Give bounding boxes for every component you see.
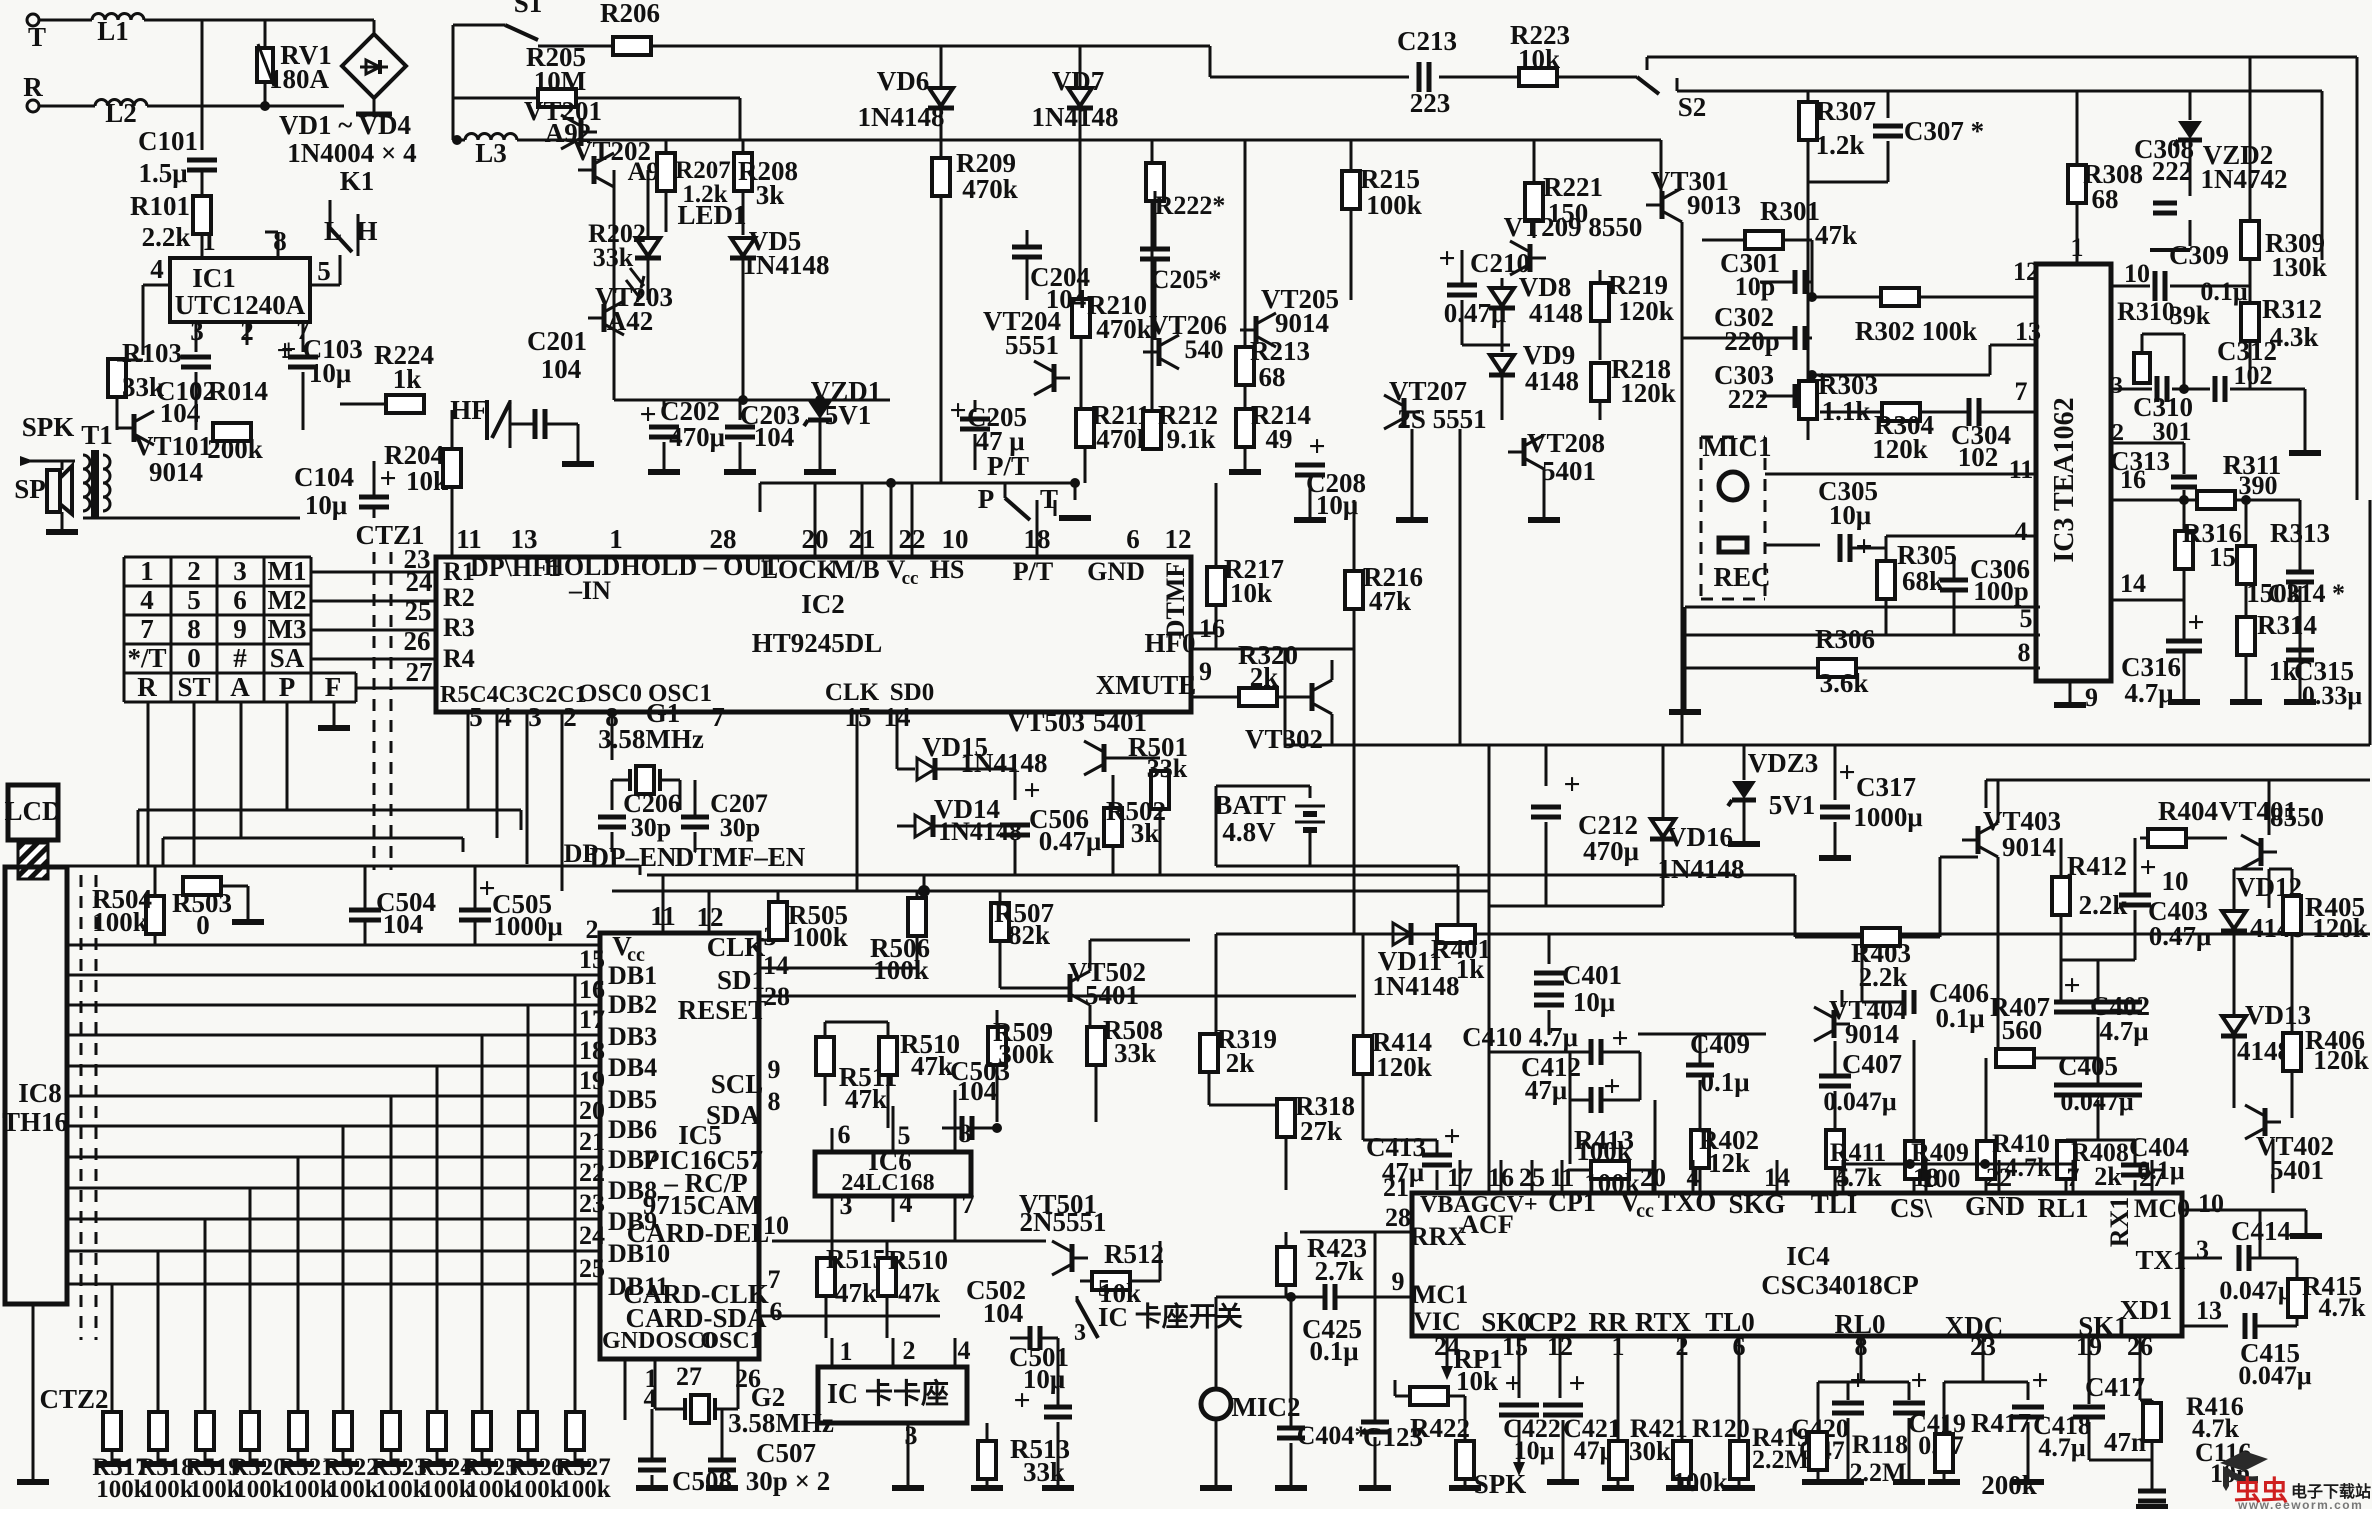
svg-text:RESET: RESET	[678, 995, 767, 1025]
svg-text:R101: R101	[130, 191, 190, 221]
svg-text:1000μ: 1000μ	[1853, 802, 1922, 832]
svg-text:0.33μ: 0.33μ	[2302, 681, 2363, 710]
svg-text:C508: C508	[672, 1466, 732, 1496]
svg-text:24LC168: 24LC168	[841, 1170, 934, 1196]
svg-text:R206: R206	[600, 0, 660, 28]
svg-text:MC1: MC1	[1412, 1280, 1468, 1309]
svg-text:4.8V: 4.8V	[1222, 817, 1276, 847]
svg-text:0.047μ: 0.047μ	[2219, 1276, 2293, 1305]
svg-text:3.6k: 3.6k	[1820, 668, 1869, 698]
svg-text:5V1: 5V1	[1769, 790, 1816, 820]
svg-text:+: +	[2063, 969, 2080, 1002]
svg-text:47μ: 47μ	[1525, 1075, 1567, 1105]
svg-text:DTMF: DTMF	[1161, 562, 1190, 639]
svg-text:+: +	[2031, 1364, 2048, 1397]
svg-text:1.5μ: 1.5μ	[138, 158, 187, 188]
svg-text:120k: 120k	[1620, 378, 1676, 408]
svg-text:R: R	[137, 672, 157, 702]
svg-text:0.47μ: 0.47μ	[2149, 921, 2212, 951]
svg-text:OSC1: OSC1	[700, 1328, 761, 1354]
svg-text:9014: 9014	[149, 457, 203, 487]
svg-text:47k: 47k	[845, 1084, 887, 1114]
svg-text:IC 卡座开关: IC 卡座开关	[1098, 1301, 1243, 1332]
svg-text:2: 2	[563, 702, 577, 732]
svg-text:1: 1	[840, 1337, 853, 1366]
svg-text:8550: 8550	[2270, 802, 2324, 832]
svg-text:VD7: VD7	[1052, 66, 1105, 96]
svg-text:C417: C417	[2085, 1372, 2145, 1402]
svg-text:+: +	[1910, 1364, 1927, 1397]
svg-text:11: 11	[456, 524, 482, 554]
svg-text:15: 15	[1502, 1332, 1528, 1361]
svg-text:R310: R310	[2117, 297, 2175, 326]
svg-text:1N4148: 1N4148	[743, 250, 830, 280]
svg-text:S1: S1	[514, 0, 543, 18]
svg-text:2.7k: 2.7k	[1315, 1256, 1364, 1286]
svg-text:VD13: VD13	[2245, 1000, 2311, 1030]
svg-text:0.1μ: 0.1μ	[1309, 1336, 1358, 1366]
svg-text:+: +	[1443, 1120, 1460, 1153]
svg-text:5: 5	[317, 256, 331, 286]
svg-text:21: 21	[1383, 1173, 1409, 1202]
svg-text:VD1 ~ VD4: VD1 ~ VD4	[279, 110, 411, 140]
svg-text:VD16: VD16	[1667, 822, 1733, 852]
svg-text:*/T: */T	[127, 643, 166, 673]
svg-text:470k: 470k	[962, 174, 1018, 204]
svg-text:IC8: IC8	[18, 1078, 62, 1108]
svg-text:M3: M3	[268, 614, 307, 644]
svg-text:VT503: VT503	[1007, 707, 1085, 737]
svg-text:470k: 470k	[1096, 314, 1152, 344]
svg-text:104: 104	[541, 354, 582, 384]
svg-text:P/T: P/T	[1013, 557, 1053, 586]
svg-text:4.7k: 4.7k	[2319, 1293, 2367, 1322]
svg-text:TLI: TLI	[1811, 1189, 1858, 1219]
svg-text:R4: R4	[443, 644, 475, 673]
svg-text:2.2k: 2.2k	[142, 222, 191, 252]
svg-text:DB2: DB2	[608, 990, 657, 1019]
svg-text:7: 7	[962, 1190, 975, 1219]
svg-text:SD1: SD1	[717, 965, 765, 995]
svg-text:R312: R312	[2262, 294, 2322, 324]
svg-text:0.1μ: 0.1μ	[1700, 1067, 1749, 1097]
svg-text:1: 1	[202, 226, 216, 256]
svg-text:27: 27	[406, 657, 433, 687]
svg-text:2k: 2k	[1226, 1048, 1255, 1078]
svg-text:R306: R306	[1815, 624, 1875, 654]
svg-text:H: H	[356, 216, 377, 246]
svg-text:HF0: HF0	[1145, 628, 1196, 658]
svg-text:2: 2	[903, 1336, 916, 1365]
svg-text:C104: C104	[294, 462, 354, 492]
svg-text:9: 9	[768, 1055, 781, 1084]
svg-text:100k: 100k	[1576, 1136, 1632, 1166]
svg-text:VT209 8550: VT209 8550	[1504, 212, 1643, 242]
svg-text:9: 9	[1392, 1267, 1405, 1296]
svg-text:DB4: DB4	[608, 1053, 657, 1082]
svg-text:SA: SA	[270, 643, 305, 673]
svg-text:C101: C101	[138, 126, 198, 156]
svg-text:10μ: 10μ	[1829, 500, 1871, 530]
svg-text:1N4148: 1N4148	[938, 817, 1022, 846]
svg-text:9014: 9014	[1845, 1019, 1899, 1049]
svg-text:VT208: VT208	[1527, 428, 1605, 458]
svg-text:27: 27	[676, 1362, 702, 1391]
svg-text:5401: 5401	[1542, 456, 1596, 486]
svg-text:0.1μ: 0.1μ	[1935, 1003, 1984, 1033]
svg-text:+: +	[1849, 1364, 1866, 1397]
svg-text:ACF: ACF	[1460, 1210, 1513, 1239]
svg-text:+: +	[1603, 1070, 1620, 1103]
svg-text:30p: 30p	[631, 813, 671, 842]
svg-text:10μ: 10μ	[1514, 1436, 1555, 1465]
svg-text:DB6: DB6	[608, 1115, 657, 1144]
svg-text:102: 102	[2234, 361, 2273, 390]
svg-text:47k: 47k	[898, 1278, 940, 1308]
svg-text:11: 11	[2009, 455, 2034, 484]
svg-text:10μ: 10μ	[309, 358, 351, 388]
svg-text:C405: C405	[2058, 1051, 2118, 1081]
svg-text:104: 104	[957, 1076, 998, 1106]
svg-text:180A: 180A	[269, 64, 330, 94]
svg-text:R422: R422	[1410, 1413, 1470, 1443]
svg-text:10k: 10k	[1518, 44, 1560, 74]
svg-text:12: 12	[1165, 524, 1192, 554]
svg-text:3.58MHz: 3.58MHz	[728, 1408, 834, 1438]
svg-text:14: 14	[763, 951, 789, 980]
svg-text:14: 14	[2120, 569, 2146, 598]
svg-text:R412: R412	[2067, 851, 2127, 881]
svg-text:4.7μ: 4.7μ	[2038, 1433, 2086, 1462]
svg-text:CSC34018CP: CSC34018CP	[1761, 1270, 1919, 1300]
svg-text:33k: 33k	[1114, 1038, 1156, 1068]
svg-text:R103: R103	[122, 338, 182, 368]
svg-text:0.047μ: 0.047μ	[2238, 1361, 2312, 1390]
svg-text:10μ: 10μ	[1573, 987, 1615, 1017]
svg-text:VD6: VD6	[877, 66, 930, 96]
svg-text:T: T	[28, 22, 46, 52]
svg-text:16: 16	[1199, 614, 1225, 643]
svg-text:470μ: 470μ	[1583, 836, 1639, 866]
svg-text:68: 68	[1259, 362, 1286, 392]
svg-text:33k: 33k	[1147, 754, 1188, 783]
svg-text:www.eeworm.com: www.eeworm.com	[2237, 1498, 2363, 1509]
svg-text:10μ: 10μ	[1316, 490, 1358, 520]
svg-text:–IN: –IN	[568, 576, 611, 605]
svg-text:+: +	[1023, 774, 1040, 807]
svg-text:cc: cc	[902, 568, 919, 589]
svg-text:RRX: RRX	[1410, 1222, 1467, 1251]
svg-text:5: 5	[898, 1121, 911, 1150]
svg-text:3: 3	[233, 556, 247, 586]
svg-text:R510: R510	[888, 1245, 948, 1275]
svg-text:C213: C213	[1397, 26, 1457, 56]
svg-text:4: 4	[900, 1189, 913, 1218]
svg-text:560: 560	[2002, 1015, 2043, 1045]
svg-text:R302 100k: R302 100k	[1855, 316, 1977, 346]
svg-text:C313: C313	[2110, 446, 2170, 476]
svg-text:120k: 120k	[1872, 434, 1928, 464]
svg-text:RX1: RX1	[2105, 1197, 2134, 1248]
svg-text:47k: 47k	[911, 1051, 953, 1081]
svg-text:120k: 120k	[2313, 1045, 2369, 1075]
svg-text:CS\: CS\	[1890, 1193, 1933, 1223]
svg-text:6: 6	[233, 585, 247, 615]
svg-text:100p: 100p	[1973, 576, 2029, 606]
svg-text:#: #	[233, 643, 247, 673]
svg-text:SPK: SPK	[1474, 1469, 1527, 1499]
svg-text:104: 104	[160, 398, 201, 428]
svg-text:IC1: IC1	[192, 263, 236, 293]
svg-text:10: 10	[2162, 866, 2189, 896]
svg-text:A: A	[230, 672, 250, 702]
svg-text:47k: 47k	[1369, 586, 1411, 616]
svg-text:VDZ3: VDZ3	[1748, 748, 1819, 778]
svg-text:27k: 27k	[1300, 1116, 1342, 1146]
svg-text:M2: M2	[268, 585, 307, 615]
svg-text:100k: 100k	[559, 1476, 611, 1503]
svg-text:1N4148: 1N4148	[858, 102, 945, 132]
svg-text:3: 3	[2196, 1235, 2209, 1264]
svg-text:3: 3	[1074, 1320, 1086, 1346]
svg-text:1k: 1k	[393, 364, 422, 394]
svg-text:9: 9	[2085, 683, 2098, 712]
svg-text:R3: R3	[443, 613, 475, 642]
svg-text:1N4148: 1N4148	[1373, 971, 1460, 1001]
svg-text:TX1: TX1	[2135, 1245, 2186, 1275]
svg-text:68: 68	[2092, 184, 2119, 214]
svg-text:T1: T1	[81, 420, 113, 450]
svg-text:470μ: 470μ	[669, 422, 725, 452]
svg-text:5401: 5401	[2270, 1155, 2324, 1185]
svg-text:+: +	[949, 394, 966, 427]
svg-text:5V1: 5V1	[825, 400, 872, 430]
svg-text:R207: R207	[675, 157, 731, 184]
svg-text:CARD-DEL: CARD-DEL	[627, 1218, 770, 1248]
svg-text:12k: 12k	[1708, 1148, 1750, 1178]
svg-text:TL0: TL0	[1705, 1307, 1755, 1337]
svg-text:DB5: DB5	[608, 1085, 657, 1114]
svg-text:100k: 100k	[92, 907, 148, 937]
svg-text:12: 12	[2013, 257, 2039, 286]
svg-text:MIC1: MIC1	[1703, 432, 1772, 462]
svg-text:RL1: RL1	[2037, 1193, 2088, 1223]
svg-text:C307 *: C307 *	[1904, 116, 1984, 146]
svg-text:TXO: TXO	[1658, 1187, 1717, 1217]
svg-text:SP: SP	[14, 474, 46, 504]
svg-text:VT207: VT207	[1389, 376, 1467, 406]
svg-text:C201: C201	[527, 326, 587, 356]
svg-text:2k: 2k	[2094, 1162, 2122, 1191]
svg-text:7: 7	[2015, 377, 2028, 406]
svg-text:4: 4	[2015, 517, 2028, 546]
svg-text:M/B: M/B	[830, 555, 879, 584]
svg-text:4.7μ: 4.7μ	[2124, 678, 2173, 708]
svg-text:XD1: XD1	[2120, 1295, 2173, 1325]
svg-text:M1: M1	[268, 556, 307, 586]
svg-text:4148: 4148	[1525, 366, 1579, 396]
svg-text:CTZ2: CTZ2	[39, 1384, 108, 1414]
svg-text:S2: S2	[1678, 92, 1707, 122]
svg-text:ST: ST	[177, 672, 210, 702]
svg-text:223: 223	[1410, 88, 1451, 118]
svg-text:1: 1	[609, 524, 623, 554]
svg-text:4: 4	[150, 254, 164, 284]
svg-text:8: 8	[768, 1087, 781, 1116]
svg-text:GND: GND	[1965, 1191, 2025, 1221]
svg-text:1000μ: 1000μ	[493, 911, 562, 941]
svg-text:2: 2	[586, 915, 599, 944]
svg-text:3k: 3k	[756, 180, 785, 210]
svg-text:R222*: R222*	[1155, 191, 1226, 220]
svg-text:1: 1	[2071, 233, 2084, 262]
svg-text:C401: C401	[1562, 960, 1622, 990]
svg-text:222: 222	[2152, 156, 2193, 186]
svg-text:39k: 39k	[2170, 301, 2211, 330]
svg-text:10μ: 10μ	[305, 490, 347, 520]
svg-text:9: 9	[233, 614, 247, 644]
svg-text:120k: 120k	[1376, 1052, 1432, 1082]
svg-text:LED1: LED1	[677, 200, 746, 230]
svg-text:102: 102	[1958, 442, 1999, 472]
svg-text:IC 卡卡座: IC 卡卡座	[827, 1377, 949, 1410]
svg-text:C407: C407	[1842, 1049, 1902, 1079]
svg-text:8: 8	[2018, 638, 2031, 667]
svg-text:XMUTE: XMUTE	[1096, 670, 1197, 700]
svg-text:9014: 9014	[2002, 832, 2056, 862]
svg-text:1.2k: 1.2k	[1816, 130, 1865, 160]
svg-text:LCD: LCD	[4, 796, 61, 826]
svg-text:TH16: TH16	[2, 1107, 68, 1137]
svg-text:10: 10	[2124, 259, 2150, 288]
svg-text:47k: 47k	[835, 1278, 877, 1308]
svg-text:+: +	[1563, 768, 1580, 801]
svg-text:5: 5	[469, 702, 483, 732]
svg-text:C404*: C404*	[1297, 1421, 1368, 1450]
svg-text:MIC2: MIC2	[1232, 1392, 1301, 1422]
svg-text:C309: C309	[2169, 240, 2229, 270]
svg-text:130k: 130k	[2271, 252, 2327, 282]
svg-text:C314 *: C314 *	[2268, 579, 2345, 608]
svg-text:10p: 10p	[1735, 272, 1775, 301]
svg-text:L: L	[324, 216, 342, 246]
svg-text:540: 540	[1185, 335, 1224, 364]
svg-text:8: 8	[187, 614, 201, 644]
svg-text:100k: 100k	[873, 955, 929, 985]
svg-text:104: 104	[983, 1298, 1024, 1328]
svg-text:13: 13	[2015, 317, 2041, 346]
svg-text:222: 222	[1728, 384, 1769, 414]
svg-text:4: 4	[140, 585, 154, 615]
svg-text:49: 49	[1266, 424, 1293, 454]
svg-text:7: 7	[711, 702, 725, 732]
svg-text:3: 3	[905, 1421, 918, 1450]
svg-text:8: 8	[959, 1119, 972, 1148]
svg-text:0.47μ: 0.47μ	[1444, 298, 1507, 328]
svg-text:MC0: MC0	[2134, 1194, 2190, 1223]
svg-text:+: +	[2187, 606, 2204, 639]
svg-text:10: 10	[763, 1211, 789, 1240]
svg-text:REC: REC	[1713, 562, 1770, 592]
svg-text:+: +	[639, 398, 656, 431]
svg-text:IC4: IC4	[1786, 1241, 1830, 1271]
svg-text:120k: 120k	[1618, 296, 1674, 326]
svg-text:7: 7	[140, 614, 154, 644]
svg-text:1k: 1k	[1456, 954, 1485, 984]
svg-text:P: P	[978, 484, 995, 514]
svg-text:4: 4	[958, 1336, 971, 1365]
svg-text:6: 6	[770, 1297, 783, 1326]
svg-text:cc: cc	[1636, 1200, 1654, 1222]
svg-text:5551: 5551	[1005, 330, 1059, 360]
svg-text:9013: 9013	[1687, 190, 1741, 220]
svg-text:30p: 30p	[720, 813, 760, 842]
svg-text:0: 0	[187, 643, 201, 673]
svg-text:100k: 100k	[1366, 190, 1422, 220]
svg-text:1N4004 × 4: 1N4004 × 4	[287, 138, 416, 168]
svg-text:CLK: CLK	[707, 932, 766, 962]
svg-text:R301: R301	[1760, 196, 1820, 226]
svg-text:3.58MHz: 3.58MHz	[598, 724, 704, 754]
svg-text:120k: 120k	[2312, 913, 2368, 943]
svg-text:82k: 82k	[1008, 920, 1050, 950]
svg-text:9.1k: 9.1k	[1167, 424, 1216, 454]
svg-text:2N5551: 2N5551	[1020, 1207, 1107, 1237]
svg-text:30k: 30k	[1629, 1436, 1671, 1466]
svg-text:10k: 10k	[1230, 578, 1272, 608]
svg-text:DB1: DB1	[608, 961, 657, 990]
svg-text:2: 2	[187, 556, 201, 586]
svg-text:104: 104	[754, 422, 795, 452]
svg-text:R2: R2	[443, 583, 475, 612]
svg-text:0: 0	[196, 910, 210, 940]
svg-text:R417: R417	[1971, 1408, 2031, 1438]
svg-text:R120: R120	[1692, 1414, 1750, 1443]
svg-text:DB3: DB3	[608, 1022, 657, 1051]
svg-text:IC3 TEA1062: IC3 TEA1062	[2049, 397, 2080, 562]
svg-text:GND: GND	[1087, 557, 1145, 586]
svg-text:K1: K1	[340, 166, 375, 196]
svg-text:F: F	[325, 672, 342, 702]
svg-text:7: 7	[768, 1265, 781, 1294]
svg-text:CP1: CP1	[1548, 1188, 1596, 1217]
svg-text:SKG: SKG	[1728, 1189, 1785, 1219]
svg-text:5: 5	[187, 585, 201, 615]
svg-text:P: P	[279, 672, 296, 702]
svg-text:R: R	[23, 72, 43, 102]
svg-text:+: +	[1838, 756, 1855, 789]
svg-text:BATT: BATT	[1214, 790, 1286, 820]
svg-text:9: 9	[1199, 657, 1212, 686]
svg-text:33k: 33k	[1023, 1457, 1065, 1487]
svg-text:1: 1	[140, 556, 154, 586]
svg-text:3: 3	[840, 1191, 853, 1220]
svg-text:68k: 68k	[1902, 566, 1944, 596]
svg-text:R014: R014	[208, 376, 268, 406]
svg-text:4148: 4148	[1529, 298, 1583, 328]
svg-text:1N4148: 1N4148	[1032, 102, 1119, 132]
svg-text:390: 390	[2239, 471, 2278, 500]
svg-text:+: +	[1308, 430, 1325, 463]
svg-text:10: 10	[942, 524, 969, 554]
svg-text:C317: C317	[1856, 772, 1916, 802]
svg-text:6: 6	[1126, 524, 1140, 554]
svg-text:10k: 10k	[1456, 1366, 1498, 1396]
svg-text:R512: R512	[1104, 1239, 1164, 1269]
svg-text:L3: L3	[475, 138, 507, 168]
svg-text:3k: 3k	[1131, 818, 1160, 848]
svg-text:30p × 2: 30p × 2	[746, 1466, 830, 1496]
